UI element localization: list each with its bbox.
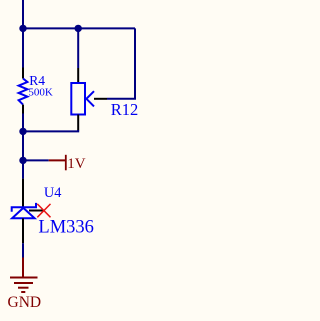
svg-text:R12: R12 [111,100,139,119]
junction node C [19,128,26,135]
svg-text:1V: 1V [67,156,86,172]
diode U4 pin 2 (anode) [22,218,24,243]
diode U4 pin 1 (cathode) [22,179,24,208]
potentiometer R12 pin 2 (bottom) [77,115,79,131]
wire: node D down to U4 [22,160,24,178]
resistor R4 pin 2 [22,105,24,114]
diode U4 adjust pin [29,210,44,212]
resistor R4 pin 1 [22,68,24,79]
potentiometer R12 body [71,83,85,115]
svg-text:500K: 500K [28,87,53,99]
ground bar 2 [14,282,33,284]
diode U4 anode triangle [12,208,34,218]
wire: U4 anode to ground [22,243,24,257]
ground stem [22,258,24,278]
wire: R12 bottom to node C [23,130,78,131]
resistor R4 body (zigzag) [19,79,28,105]
junction node D (probe tap) [19,157,26,164]
no-ERC marker (red X) on adjust pin [37,204,50,217]
junction node A (top-left) [19,25,26,32]
potentiometer R12 wiper arrowhead [86,91,94,106]
potentiometer R12 pin 1 (top) [77,68,79,83]
svg-text:GND: GND [8,294,42,311]
probe 1V lead [49,159,66,161]
wire: node B down to R12 pin 1 [77,28,79,68]
ground bar 1 [10,277,38,279]
ground bar 3 [18,287,29,289]
junction node B (top of R12) [75,25,82,32]
wire: node C to node D [22,131,24,160]
svg-text:U4: U4 [44,185,61,201]
ground bar 4 [21,291,25,293]
potentiometer R12 wiper pin [94,98,107,100]
wire: top horizontal bus [23,27,135,29]
svg-text:LM336: LM336 [38,217,94,237]
wire: node A down to R4 pin 1 [22,28,24,67]
probe 1V bar [65,155,67,171]
wire: left vertical from top edge to node A [22,0,24,28]
wire: R4 pin2 down to node C [22,114,24,132]
wire: node D to probe [23,159,49,161]
wire: right vertical (wiper feedback) [107,28,135,98]
diode U4 cathode zener bar [12,203,36,212]
